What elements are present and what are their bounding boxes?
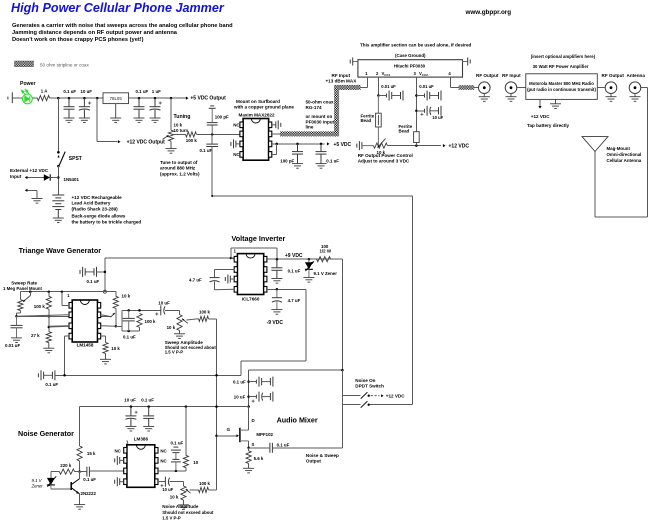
svg-text:Power: Power (20, 81, 36, 87)
wire radio +12 stem (539, 99, 541, 106)
svg-text:RG-174: RG-174 (306, 105, 323, 110)
svg-text:NC: NC (160, 459, 167, 464)
junction node tuning (211, 133, 214, 136)
junction pin6 / C31 (175, 470, 178, 473)
svg-text:30 Watt RF Power Amplifier: 30 Watt RF Power Amplifier (533, 64, 589, 69)
svg-text:5.6 k: 5.6 k (254, 456, 264, 461)
wire zener to base (51, 488, 71, 490)
junction source node (247, 447, 250, 450)
wire Q1 emitter down (79, 494, 81, 505)
svg-text:the battery to be trickle char: the battery to be trickle charged (72, 219, 142, 224)
wire bank row2 stub (249, 396, 257, 398)
svg-text:Noise Generator: Noise Generator (18, 429, 74, 438)
wire C32 to pot (170, 481, 184, 483)
wire RC loop left down (121, 310, 123, 331)
wire wiper to R17 (190, 489, 199, 491)
svg-text:Triange Wave Generator: Triange Wave Generator (19, 246, 102, 255)
wire R15 to node (75, 471, 80, 473)
svg-text:78L05: 78L05 (110, 96, 123, 101)
svg-text:1.5 V P-P: 1.5 V P-P (162, 515, 181, 520)
arrow +12 VDC into switch (381, 394, 383, 397)
junction +9V / zener (308, 258, 311, 261)
ground of Q1 (74, 505, 85, 510)
resistor R15 220k (59, 469, 74, 474)
svg-text:1 A: 1 A (41, 89, 48, 94)
junction Vcc2 node a (415, 94, 418, 97)
svg-text:+13 dBm MAX: +13 dBm MAX (326, 78, 358, 83)
svg-text:Doesn't work on those crappy P: Doesn't work on those crappy PCS phones … (12, 37, 144, 43)
node open junction (103, 290, 106, 293)
svg-text:100 k: 100 k (34, 304, 46, 309)
svg-text:Output: Output (306, 459, 322, 464)
wire R5 top lead (48, 292, 50, 297)
junction top rail / R5 (48, 290, 51, 293)
connector J3 RF Input (505, 82, 517, 97)
svg-text:27 k: 27 k (31, 333, 40, 338)
svg-text:G: G (227, 427, 231, 432)
capacitor C20 bypass at U5 pin3 (225, 275, 234, 284)
wire U3 pin2 down (377, 77, 379, 95)
svg-text:10: 10 (193, 460, 198, 465)
stripline trace pin7 horizontal (280, 131, 336, 136)
capacitor C10 0.1uF (316, 144, 327, 164)
wire R11 to mix rail (209, 318, 217, 320)
battery BT1 12V lead acid (52, 195, 64, 218)
wire U3 pin3 down (415, 77, 417, 146)
svg-text:Voltage Inverter: Voltage Inverter (232, 234, 286, 243)
svg-text:Jamming distance depends on RF: Jamming distance depends on RF output po… (12, 30, 178, 36)
svg-text:0.1 uF: 0.1 uF (277, 442, 290, 447)
block Motorola Master radio (526, 74, 598, 100)
wire antenna down (647, 88, 649, 217)
svg-text:0.1 uF: 0.1 uF (87, 279, 100, 284)
junction rail / C3 (138, 97, 141, 100)
wire C18 to pot (165, 309, 180, 311)
op-amp U6 LM386 (124, 445, 158, 488)
capacitor C2 10uF (polarized) (79, 98, 91, 118)
svg-text:0.01 uF: 0.01 uF (5, 343, 20, 348)
connector J5 Antenna (629, 82, 641, 97)
svg-text:0.1 uF: 0.1 uF (63, 89, 76, 94)
wire U3 pin4 out (450, 86, 458, 88)
svg-text:10 k: 10 k (170, 495, 179, 500)
junction wireA / C26 (130, 405, 133, 408)
svg-text:High Power Cellular Phone Jamm: High Power Cellular Phone Jammer (11, 1, 225, 15)
svg-text:(put radio in continuous trans: (put radio in continuous transmit) (527, 87, 596, 92)
svg-text:NC: NC (233, 152, 240, 157)
svg-text:10 k: 10 k (167, 325, 176, 330)
svg-text:RF Output Power Control: RF Output Power Control (358, 153, 413, 158)
diode D2 1N5401 (44, 174, 50, 180)
zener diode D4 9.1V (47, 476, 56, 489)
wire stripline to RF out connector (474, 86, 478, 88)
wire long vertical x412 (412, 196, 414, 405)
junction Vcc2 node b (415, 110, 418, 113)
svg-text:0.1 uF: 0.1 uF (326, 159, 339, 164)
wire +12V tap vertical (96, 98, 98, 142)
junction rail / C1 (68, 97, 71, 100)
svg-text:Mag-Mount: Mag-Mount (607, 146, 631, 151)
wire pole2 to x412 (370, 404, 413, 406)
svg-text:NC: NC (233, 123, 240, 128)
wire U4 pin2R out (101, 315, 111, 317)
svg-text:Noise Amplitude: Noise Amplitude (162, 504, 199, 509)
svg-text:0.1 uF: 0.1 uF (200, 148, 213, 153)
wire R3 to MAX2622 pin2 (197, 133, 240, 135)
junction lineB / +9V drop (341, 369, 344, 372)
wire U4 pin3 in (49, 325, 69, 328)
svg-text:Input: Input (10, 174, 22, 179)
junction lineA / U4 pin4 (63, 374, 66, 377)
svg-text:4.7 uF: 4.7 uF (189, 277, 202, 282)
svg-text:NC: NC (160, 448, 167, 453)
wire R8 bottom (115, 308, 117, 326)
capacitor C32 10uF series (polarized) (165, 477, 169, 487)
svg-text:(insert optional amplifiers he: (insert optional amplifiers here) (531, 54, 596, 59)
wire bank row1 stub (249, 381, 257, 383)
junction rail / tuning pot (170, 97, 173, 100)
svg-text:+12 VDC: +12 VDC (531, 114, 550, 119)
svg-text:10 k: 10 k (122, 294, 131, 299)
junction gate node (215, 435, 218, 438)
wire C33 to output corner (272, 447, 342, 449)
capacitor C4 1uF (polarized) (150, 98, 162, 118)
converter U5 ICL7660 (234, 254, 267, 295)
ground of tuning pot (166, 141, 177, 153)
junction top rail / pin1 branch (61, 290, 64, 293)
svg-text:0.1 uF: 0.1 uF (83, 477, 96, 482)
svg-text:+12 VDC: +12 VDC (449, 144, 470, 150)
svg-text:10 uF: 10 uF (81, 89, 93, 94)
svg-text:100 pF: 100 pF (215, 114, 229, 119)
wire SPST to diode junction (57, 166, 59, 195)
svg-text:www.gbppr.org: www.gbppr.org (465, 9, 512, 16)
svg-text:SPST: SPST (69, 156, 82, 162)
junction sweep node1 (15, 315, 18, 318)
wire jack to LED (12, 97, 22, 99)
capacitor C12 wiper coupling (357, 141, 374, 150)
capacitor C18 10uF series (polarized) (161, 305, 165, 315)
fuse F1 1A (zigzag) (37, 96, 49, 101)
junction C6 corner (211, 195, 213, 197)
wire wiper to R11 (187, 319, 199, 320)
svg-text:D: D (252, 418, 255, 423)
wire pin1 branch v (61, 292, 63, 306)
svg-text:Bead: Bead (399, 128, 410, 133)
wire pot R10 top (179, 310, 181, 314)
resistor R13 10 ohm (183, 455, 188, 467)
wire pin5 riser (276, 144, 278, 155)
svg-text:Tuning: Tuning (174, 114, 191, 120)
op-amp U4 LM1458 (69, 300, 101, 342)
junction lineA / mix rail (215, 374, 218, 377)
ground of battery (53, 218, 64, 223)
svg-text:External +12 VDC: External +12 VDC (10, 168, 49, 173)
polarity + mark C25 (252, 400, 255, 403)
arrow +12 VDC radio (538, 106, 541, 109)
svg-text:100 k: 100 k (199, 309, 211, 314)
wire pole1 stub (342, 395, 360, 397)
arrow external input (25, 176, 28, 179)
wire U4 pin4 left (65, 335, 70, 337)
wire antenna right (641, 87, 648, 89)
wire U4 pin4 down (64, 336, 66, 375)
wire pin1 stub (231, 258, 234, 259)
junction pin1 node (230, 257, 233, 260)
svg-text:0.1 uF: 0.1 uF (171, 440, 184, 445)
wire inv input y327 (49, 325, 70, 328)
regulator U1 78L05 (103, 93, 129, 104)
switch S1 SPST (57, 151, 65, 167)
wire pin1 branch h (62, 304, 69, 306)
svg-text:0.1 uF: 0.1 uF (141, 398, 154, 403)
junction bank row2 (247, 395, 250, 398)
amplifier U3 Hitachi PF0030 (358, 60, 463, 77)
stripline trace to PF0030 pin1 (334, 85, 361, 90)
svg-text:10 uF: 10 uF (234, 395, 246, 400)
resistor R8 10k feedback (113, 296, 118, 308)
wire +9V drop x342 (341, 259, 343, 370)
svg-text:0.1 uF: 0.1 uF (288, 268, 301, 273)
ground for J5 Antenna (630, 97, 641, 102)
wire between poles (341, 396, 343, 405)
ferrite bead FB2 (414, 132, 420, 143)
resistor R12 100 ohm (317, 257, 331, 262)
resistor R18 5.6k (246, 451, 251, 464)
junction rail / C2 (83, 97, 86, 100)
potentiometer R2 tuning 10k (168, 130, 173, 141)
ground of R18 (243, 463, 254, 473)
svg-text:-9 VDC: -9 VDC (267, 320, 284, 326)
svg-text:Adjust to around 3 VDC: Adjust to around 3 VDC (358, 159, 410, 164)
capacitor C5 100pF to open stub (207, 106, 218, 134)
junction Vcc1 node (377, 94, 380, 97)
svg-text:0.01 uF: 0.01 uF (381, 84, 396, 89)
capacitor C7 bypass at U2 pin3 (231, 139, 240, 148)
wire pole2 stub (342, 404, 360, 406)
ground for J2 RF Output (479, 97, 490, 102)
svg-text:Antenna: Antenna (627, 73, 646, 78)
wire cap bank rail (248, 370, 250, 407)
svg-text:+12 VDC Rechargeable: +12 VDC Rechargeable (72, 195, 123, 200)
wire A left drop (79, 407, 81, 446)
antenna ANT1 (triangle) (582, 137, 608, 152)
capacitor C24 0.1uF bank (256, 377, 273, 387)
capacitor C1 0.1uF (64, 98, 75, 118)
wire C28 to U6 pin3 (89, 470, 123, 472)
svg-text:10 k: 10 k (174, 123, 183, 128)
svg-text:LM1458: LM1458 (77, 342, 94, 347)
ground of C22 (271, 310, 282, 315)
capacitor C3 0.1uF (134, 98, 145, 118)
legend: 50 ohm stripline swatch (15, 61, 34, 67)
svg-text:0.1 uF: 0.1 uF (233, 380, 246, 385)
wire Vcc1 to C11 (378, 95, 386, 97)
junction top rail / wiper (29, 290, 32, 293)
wire C19 column bottom (214, 281, 216, 290)
ground of R10 (174, 331, 185, 339)
transistor Q1 2N2222 (71, 479, 79, 494)
wire U3 pin1 to stripline (361, 86, 368, 88)
wire U6 pin6 out (158, 470, 186, 472)
svg-text:9.1 V: 9.1 V (32, 478, 43, 483)
svg-text:Noise & Sweep: Noise & Sweep (306, 453, 339, 458)
wire C19 column top (214, 270, 216, 278)
stripline trace vertical riser (334, 87, 339, 136)
capacitor C25 10uF bank (polarized) (256, 392, 273, 402)
svg-text:4.7 uF: 4.7 uF (288, 298, 301, 303)
ground of 78L05 (110, 104, 121, 123)
power jack J1 (8, 92, 12, 103)
svg-text:Noise On: Noise On (355, 378, 375, 383)
capacitor C22 4.7uF (polarized) (272, 289, 282, 309)
wire Vcc2 to C14 (416, 110, 424, 112)
wire zener drop (50, 472, 52, 478)
svg-text:line: line (306, 125, 314, 130)
ground of external return (32, 199, 43, 204)
arrow +12 VDC Output (118, 140, 121, 143)
resistor R19 10k (103, 343, 108, 354)
wire LED to fuse (33, 97, 38, 99)
wire line B (249, 369, 343, 371)
svg-text:Zener: Zener (31, 483, 44, 488)
wire Q1 collector up (79, 472, 81, 479)
resistor R17 100k (199, 487, 209, 492)
switch S2 pole 2 (361, 401, 370, 408)
svg-text:220 k: 220 k (60, 463, 72, 468)
svg-text:or mount on: or mount on (306, 114, 333, 119)
wire antenna bottom (595, 216, 648, 218)
svg-text:50-ohm coax: 50-ohm coax (306, 99, 335, 104)
wire RC loop top (122, 309, 161, 311)
capacitor C6 0.1uF series (206, 144, 218, 146)
svg-text:ICL7660: ICL7660 (242, 296, 260, 301)
arrow gate (237, 434, 239, 437)
wire osc top rail (20, 291, 115, 293)
wire pot R16 top (182, 482, 184, 486)
svg-text:0.1 uF: 0.1 uF (136, 89, 149, 94)
wire -9V drop x306 (305, 289, 307, 361)
wire RC loop stub (116, 325, 122, 327)
svg-text:(Case Ground): (Case Ground) (395, 53, 426, 58)
capacitor C14 10uF (polarized) (425, 106, 442, 116)
svg-text:Back-surge diode allows: Back-surge diode allows (72, 214, 126, 219)
resistor R5 100k (46, 296, 51, 309)
resistor R9 100k (137, 313, 142, 327)
svg-text:1 Meg Panel Mount: 1 Meg Panel Mount (3, 286, 42, 291)
+5V rail after regulator (129, 97, 184, 99)
wire radio to RF out (597, 87, 605, 89)
junction bank row1 (247, 380, 250, 383)
wire source down (248, 441, 250, 448)
resistor R14 15k (77, 446, 82, 461)
capacitor C11 0.01uF (387, 91, 404, 101)
wire U5 pin2 left (215, 269, 235, 271)
ground for J4 RF Output (606, 97, 617, 102)
junction inv node (48, 326, 51, 329)
arrow chassis return (25, 189, 28, 192)
zener diode D3 9.1V (305, 259, 314, 277)
wire R13 bottom (185, 468, 187, 471)
capacitor C31 0.1uF stacked (171, 447, 181, 471)
wire tuning node to C6 (211, 134, 213, 144)
wire C6 down long (211, 147, 213, 197)
svg-text:LM386: LM386 (134, 436, 149, 441)
svg-text:(Radio Shack 23-289): (Radio Shack 23-289) (72, 206, 119, 211)
ground of R16 (178, 500, 189, 510)
capacitor C33 0.1uF output (270, 443, 273, 453)
wire U2 pin7 stub (272, 133, 280, 135)
connector J2 RF Output (479, 82, 491, 97)
case ground terminal right (463, 58, 471, 66)
svg-text:Sweep Rate: Sweep Rate (11, 281, 37, 286)
junction rail / switch column (57, 97, 60, 100)
capacitor C16 0.01uF (11, 316, 23, 338)
wire R9 bottom lead (139, 327, 141, 331)
wire C15 to rail (97, 271, 105, 273)
svg-text:100 k: 100 k (145, 319, 157, 324)
wire R15 left (51, 471, 59, 473)
arrow +5 VDC at U2 (327, 142, 330, 145)
wire source to R18 (248, 448, 250, 451)
LED D1 power indicator (green) (22, 90, 33, 104)
switch S2 pole 1 (361, 392, 380, 399)
capacitor C21 0.1uF (271, 259, 282, 278)
svg-text:10 k: 10 k (111, 346, 120, 351)
wire +9V to switch (341, 370, 343, 396)
svg-text:0.1 uF: 0.1 uF (45, 382, 58, 387)
svg-text:RF Output: RF Output (602, 73, 625, 78)
wire R14 bottom (79, 461, 81, 472)
svg-text:Generates a carrier with noise: Generates a carrier with noise that swee… (12, 23, 233, 29)
ferrite bead FB1 (376, 96, 382, 146)
junction diode / battery (57, 176, 60, 179)
wire tuning wiper to R3 (174, 133, 186, 135)
svg-text:(approx. 1.2 Volts): (approx. 1.2 Volts) (160, 171, 200, 176)
wire ext input to diode (27, 177, 43, 179)
svg-text:DPDT Switch: DPDT Switch (355, 383, 384, 388)
polarity + mark C32 (160, 484, 163, 487)
wire drain up (248, 407, 250, 431)
svg-text:0.1 uF: 0.1 uF (123, 334, 136, 339)
wire U2 pin6 +5V (272, 143, 325, 145)
svg-text:+12 VDC Output: +12 VDC Output (127, 139, 166, 145)
wiper arrow into R8 (111, 313, 115, 317)
junction RC top R9 (138, 309, 141, 312)
wire diode to junction (50, 177, 58, 179)
svg-text:around 880 MHz: around 880 MHz (160, 166, 196, 171)
svg-text:9.1 V Zener: 9.1 V Zener (314, 271, 338, 276)
wire return to ground (27, 189, 37, 191)
wire antenna riser (594, 152, 596, 218)
wire switch down to output (341, 405, 343, 448)
wire RC loop bottom (122, 330, 140, 332)
svg-text:Audio Mixer: Audio Mixer (277, 415, 318, 424)
capacitor C15 0.1uF coupling (80, 267, 97, 277)
svg-text:NC: NC (115, 448, 122, 453)
capacitor C28 0.1uF coupling (87, 467, 90, 477)
wire gate (217, 435, 238, 437)
svg-text:100 pF: 100 pF (280, 159, 294, 164)
ground of radio (550, 99, 561, 108)
wire U3 pin1 down (367, 77, 369, 87)
svg-text:10 uF: 10 uF (158, 300, 170, 305)
svg-text:Maxim MAX2622: Maxim MAX2622 (239, 113, 275, 118)
svg-text:S: S (252, 442, 255, 447)
svg-text:1N5401: 1N5401 (64, 177, 80, 182)
op-amp U2 Maxim MAX2622 VCO (240, 119, 272, 161)
wire line A (55, 374, 241, 376)
